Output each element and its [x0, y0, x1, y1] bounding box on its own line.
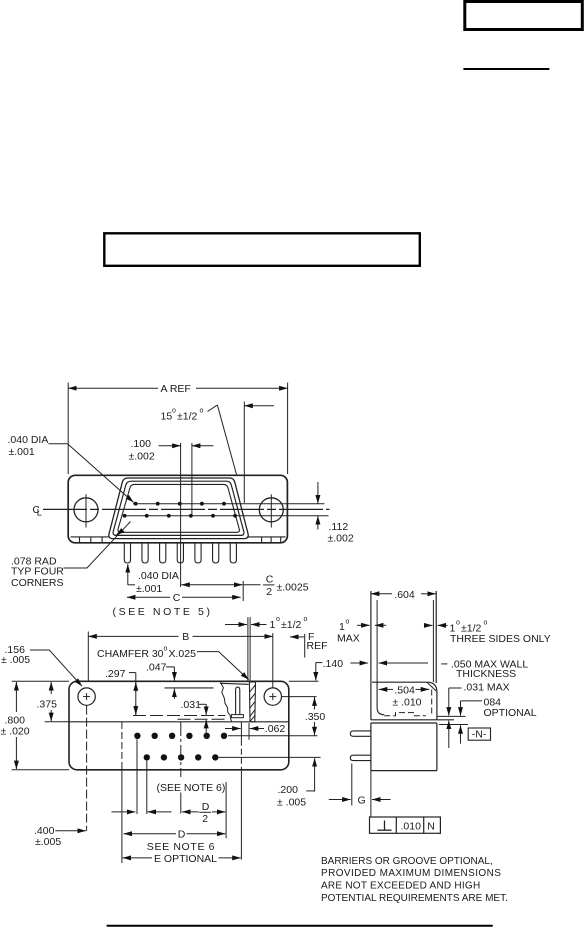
svg-text:o: o [304, 616, 308, 623]
svg-text:.010: .010 [401, 821, 422, 833]
dimension 1 deg draft [225, 616, 308, 681]
shell wall inner right [432, 600, 434, 682]
shell base outline [371, 682, 454, 720]
top edge extension lines [12, 680, 319, 682]
svg-text:(SEE NOTE 5): (SEE NOTE 5) [113, 606, 213, 618]
chamfer edge right segment [220, 683, 249, 684]
plan left mounting hole [78, 688, 95, 705]
svg-text:o: o [456, 620, 460, 627]
dimension .297 [105, 668, 136, 716]
D-sub trapezoid shell middle line [113, 481, 244, 535]
svg-text:ARE NOT EXCEEDED AND HIGH: ARE NOT EXCEEDED AND HIGH [321, 881, 480, 892]
svg-text:±.001: ±.001 [136, 583, 162, 595]
label .078 RAD TYP FOUR CORNERS with leader [11, 522, 131, 590]
flange inner bottom edge left segment [71, 536, 109, 538]
dimension .140 [316, 658, 344, 681]
datum feature control frame [370, 817, 441, 833]
horizontal centerline [43, 508, 330, 510]
svg-text:.375: .375 [37, 698, 58, 710]
dimension A REF [68, 383, 287, 475]
top row contacts [134, 502, 226, 506]
dimension 084 OPTIONAL [461, 697, 537, 744]
label .040 DIA bottom with leader to pin [128, 564, 179, 595]
svg-text:±.002: ±.002 [129, 451, 155, 463]
svg-text:±.005: ±.005 [35, 836, 61, 848]
bottom dot row extension to right [219, 756, 321, 758]
break squiggle [221, 682, 232, 722]
shell wall outer right [435, 591, 437, 683]
flange inner bottom edge right segment [247, 536, 286, 538]
upper solder pin [350, 731, 371, 736]
shell wall outer left [370, 591, 372, 682]
bottom edge ticks [80, 537, 281, 542]
svg-text:±.001: ±.001 [9, 446, 35, 458]
svg-text:o: o [172, 408, 176, 415]
extension to datum box [370, 771, 372, 817]
hatched wall section [249, 682, 255, 722]
dimension .400 [34, 825, 86, 848]
dimension E OPTIONAL [123, 853, 241, 865]
dimension 1 deg MAX left [337, 619, 386, 645]
svg-text:.200: .200 [278, 784, 299, 796]
svg-text:o: o [200, 408, 204, 415]
svg-text:C: C [173, 592, 181, 604]
svg-text:o: o [484, 620, 488, 627]
svg-text:±.002: ±.002 [328, 533, 354, 545]
left mounting hole [74, 494, 98, 527]
D-sub trapezoid insert face inner line [118, 484, 240, 532]
contact column extension lines [137, 739, 147, 814]
dimension .350 [305, 697, 326, 736]
svg-text:-N-: -N- [472, 729, 487, 741]
dimension .200 [277, 758, 315, 808]
dimension .604 [371, 589, 436, 601]
svg-text:2: 2 [202, 813, 208, 825]
svg-text:C: C [266, 574, 274, 586]
step lines right of block [437, 716, 468, 724]
svg-text:.047: .047 [146, 661, 167, 673]
svg-text:1: 1 [339, 621, 345, 633]
dimension .100 pitch [129, 438, 214, 587]
svg-text:.350: .350 [305, 711, 326, 723]
D-sub trapezoid shell outer line [109, 478, 248, 539]
title block box top right [465, 2, 583, 30]
chamfer edge left segment [165, 687, 214, 689]
dimension .062 [225, 723, 285, 740]
svg-text:.112: .112 [329, 521, 349, 533]
top row contact line [133, 503, 325, 505]
svg-text:N: N [427, 821, 435, 833]
short rule under title box [463, 68, 549, 70]
plan view body outline [69, 681, 289, 770]
svg-text:o: o [164, 646, 168, 653]
svg-text:.040 DIA: .040 DIA [138, 570, 179, 582]
svg-text:± .005: ± .005 [1, 654, 30, 666]
svg-text:.297: .297 [105, 668, 126, 680]
dimension G [329, 764, 391, 807]
svg-text:A REF: A REF [161, 383, 191, 395]
label F REF [290, 631, 328, 658]
bottom rule [107, 925, 493, 927]
svg-text:CHAMFER 30: CHAMFER 30 [97, 648, 164, 660]
dimension .375 [37, 682, 58, 721]
svg-text:G: G [358, 795, 366, 807]
hole centerline extension to right [282, 696, 317, 698]
extension line .062/E right [240, 722, 242, 860]
svg-text:POTENTIAL REQUIREMENTS ARE MET: POTENTIAL REQUIREMENTS ARE MET. [321, 893, 508, 904]
small pitch dimension arrows [112, 811, 172, 813]
lower solder pin [350, 755, 371, 760]
extension line right of D [225, 782, 227, 838]
label .156 with leader [1, 644, 82, 686]
right mounting hole [259, 494, 283, 527]
svg-text:2: 2 [266, 586, 272, 598]
svg-text:1: 1 [270, 619, 276, 631]
plan top row contacts [134, 733, 227, 739]
svg-text:o: o [346, 619, 350, 626]
insulator step line [45, 721, 289, 723]
svg-text:OPTIONAL: OPTIONAL [484, 707, 537, 719]
left hole centerline dashed [86, 706, 88, 831]
svg-text:REF: REF [307, 640, 328, 652]
centerline symbol [33, 505, 42, 518]
svg-text:±1/2: ±1/2 [281, 619, 302, 631]
dimension .504 [379, 684, 429, 708]
dimension .031 [181, 699, 207, 739]
dimension D/2 [182, 801, 225, 825]
dimension C/2 [181, 574, 308, 602]
bottom row contact line [124, 515, 329, 517]
plan right mounting hole [264, 688, 281, 705]
svg-text:THREE SIDES ONLY: THREE SIDES ONLY [450, 633, 551, 645]
note SEE NOTE 6 [147, 841, 215, 853]
svg-text:.140: .140 [323, 658, 344, 670]
svg-text:±1/2: ±1/2 [177, 411, 198, 423]
dimension .047 [146, 661, 174, 698]
svg-text:SEE NOTE 6: SEE NOTE 6 [147, 841, 215, 853]
solder pin tails [124, 543, 236, 563]
cavity outline [377, 682, 432, 716]
svg-text:THICKNESS: THICKNESS [456, 668, 516, 680]
svg-text:± .020: ± .020 [1, 725, 30, 737]
svg-text:.031 MAX: .031 MAX [464, 682, 510, 694]
shell wall inner left [376, 600, 378, 682]
svg-text:MAX: MAX [337, 633, 360, 645]
svg-text:.504: .504 [394, 684, 415, 696]
hidden insert face dashed lines [133, 716, 228, 720]
svg-text:(SEE NOTE 6): (SEE NOTE 6) [157, 782, 226, 794]
body block [371, 723, 437, 771]
center dash-dot line [180, 722, 182, 814]
svg-text:.040 DIA: .040 DIA [8, 434, 49, 446]
svg-text:.031: .031 [181, 699, 202, 711]
label .040 DIA top with leader to contact [8, 434, 134, 502]
label CHAMFER 30 X.025 with leader [97, 646, 249, 680]
dimension B [88, 631, 272, 688]
dimension .112 row spacing [318, 482, 354, 545]
dimension D [124, 829, 226, 841]
svg-text:L: L [37, 508, 42, 518]
empty heading box [104, 233, 420, 265]
extension line E left [121, 722, 123, 863]
svg-text:X.025: X.025 [169, 648, 197, 660]
svg-text:±.0025: ±.0025 [277, 582, 309, 594]
datum label -N- [468, 728, 490, 741]
svg-text:TYP FOUR: TYP FOUR [11, 566, 64, 578]
svg-text:D: D [202, 801, 210, 813]
svg-text:.062: .062 [265, 723, 286, 735]
svg-text:D: D [178, 829, 186, 841]
svg-text:± .010: ± .010 [392, 696, 421, 708]
svg-text:PROVIDED MAXIMUM DIMENSIONS: PROVIDED MAXIMUM DIMENSIONS [321, 868, 501, 879]
svg-text:± .005: ± .005 [277, 797, 306, 809]
svg-text:B: B [182, 631, 189, 643]
svg-text:CORNERS: CORNERS [11, 577, 64, 589]
svg-text:.604: .604 [394, 589, 415, 601]
top dot row extension to right [228, 735, 318, 737]
dimension .800 [1, 682, 30, 769]
bottom row contacts [123, 514, 237, 518]
svg-text:o: o [276, 616, 280, 623]
svg-text:E OPTIONAL: E OPTIONAL [154, 853, 217, 865]
bottom edge extension line [12, 769, 69, 771]
note SEE NOTE 6 plan [157, 782, 226, 794]
plan bottom row contacts [144, 754, 219, 760]
svg-text:.100: .100 [131, 438, 152, 450]
dimension C [113, 592, 241, 618]
dimension 15 deg plus/minus 1/2 deg [161, 402, 275, 504]
section contact pin [231, 687, 243, 718]
dimension .031 MAX [449, 682, 510, 749]
svg-text:BARRIERS OR GROOVE OPTIONAL,: BARRIERS OR GROOVE OPTIONAL, [321, 856, 493, 867]
svg-text:15: 15 [161, 411, 173, 423]
notes paragraph [321, 856, 508, 904]
label .050 MAX WALL THICKNESS [350, 658, 528, 680]
connector shell flange (front view body) [68, 475, 287, 543]
dimension 1 deg plus/minus 1/2 right [424, 620, 551, 645]
